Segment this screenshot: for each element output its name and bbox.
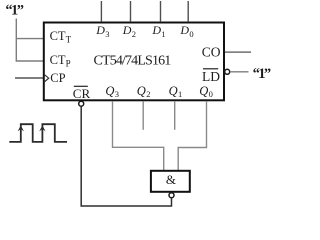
wire CP input: [15, 77, 44, 79]
wire AND output feedback to CR: [81, 106, 171, 206]
wire branch to CT_P: [16, 60, 44, 62]
wire Q0 to AND input B: [178, 101, 206, 170]
svg-text:D: D: [151, 23, 161, 37]
svg-text:3: 3: [105, 29, 109, 39]
wire LD to "1": [230, 71, 249, 73]
svg-text:LD: LD: [202, 69, 220, 84]
svg-text:CTT: CTT: [50, 29, 72, 45]
waveform arrow 1: [18, 125, 24, 131]
svg-text:0: 0: [189, 29, 193, 39]
wire D3 stub: [100, 1, 102, 22]
svg-text:CT54/74LS161: CT54/74LS161: [94, 54, 172, 69]
svg-text:2: 2: [146, 89, 150, 99]
AND gate U2 body: [151, 171, 190, 192]
wire D2 stub: [130, 1, 132, 22]
svg-text:“1”: “1”: [5, 3, 23, 19]
svg-text:Q: Q: [199, 84, 208, 98]
clock waveform CP: [9, 124, 67, 142]
wire Q1 stub: [174, 101, 176, 130]
svg-text:1: 1: [161, 29, 165, 39]
wire from "1" down: [15, 19, 17, 62]
svg-text:Q: Q: [169, 84, 178, 98]
IC U1 CT54/74LS161 body: [44, 23, 224, 101]
svg-text:CP: CP: [50, 71, 65, 85]
svg-text:1: 1: [178, 89, 182, 99]
svg-text:Q: Q: [105, 84, 114, 98]
wire CO output: [225, 51, 251, 53]
svg-text:D: D: [179, 23, 189, 37]
svg-text:3: 3: [115, 89, 119, 99]
wire Q2 stub: [142, 101, 144, 130]
svg-text:2: 2: [132, 29, 136, 39]
svg-text:Q: Q: [137, 84, 146, 98]
bubble on AND output: [169, 193, 174, 198]
svg-text:CTP: CTP: [50, 53, 71, 69]
svg-text:D: D: [95, 23, 105, 37]
bubble on CR pin: [79, 101, 84, 106]
svg-text:&: &: [166, 172, 176, 187]
svg-text:0: 0: [209, 89, 213, 99]
bubble on LD pin: [225, 69, 230, 74]
wire D1 stub: [160, 1, 162, 22]
clock chevron on CP pin: [44, 74, 49, 82]
svg-text:CR: CR: [73, 86, 91, 101]
svg-text:“1”: “1”: [253, 66, 271, 82]
waveform arrow 2: [39, 125, 45, 131]
wire D0 stub: [187, 1, 189, 22]
svg-text:D: D: [122, 23, 132, 37]
svg-text:CO: CO: [202, 45, 221, 60]
wire Q3 to AND input A: [113, 101, 164, 170]
wire branch to CT_T: [16, 38, 43, 40]
